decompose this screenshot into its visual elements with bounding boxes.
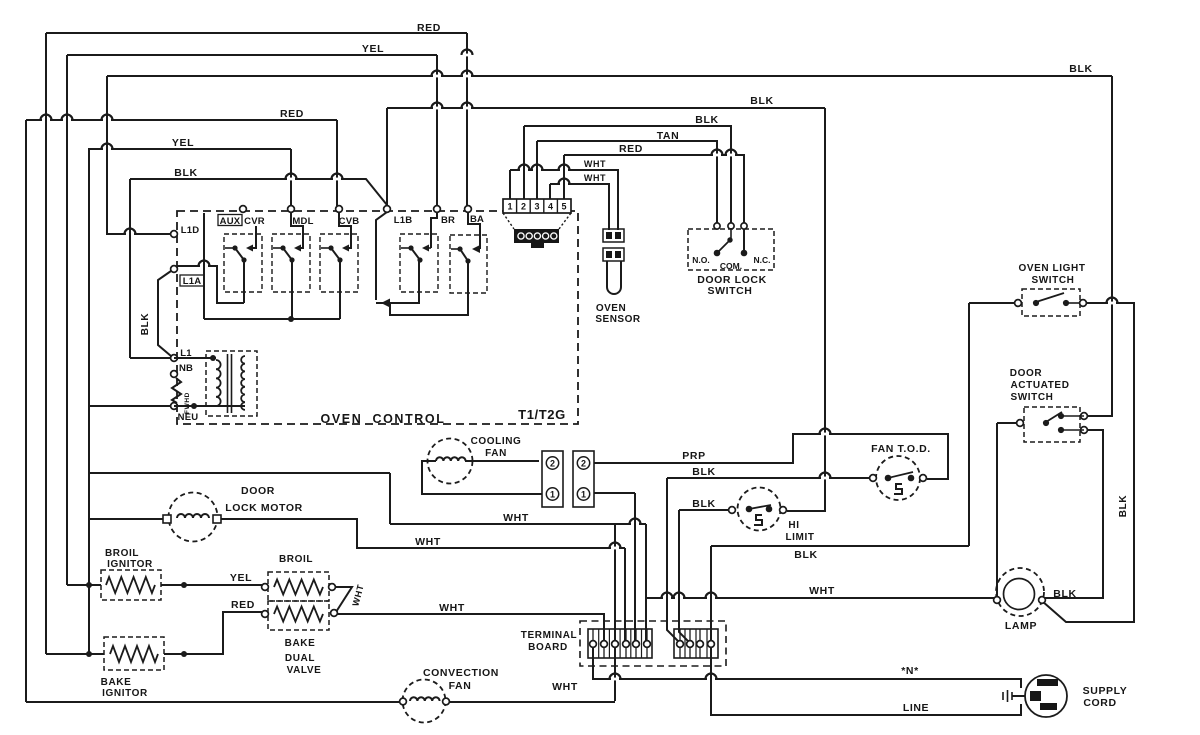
svg-text:BLK: BLK [1118, 495, 1129, 518]
svg-text:YEL: YEL [362, 43, 384, 55]
svg-text:COOLING: COOLING [471, 436, 522, 447]
bake valve [268, 601, 329, 630]
svg-text:FWHD: FWHD [184, 392, 191, 414]
svg-text:HI: HI [788, 520, 799, 531]
wire oven light switch right to BLK vertical [1042, 303, 1134, 622]
wire WHT long mid [390, 523, 646, 525]
svg-text:BROIL: BROIL [279, 554, 313, 565]
svg-text:2: 2 [581, 458, 586, 468]
relay L1B [400, 234, 438, 292]
wire vertical YEL mid to MDL [290, 149, 292, 206]
connector blocks 2/1 [542, 451, 563, 507]
connector strip pins 1-5 [503, 199, 571, 213]
wire RED top [46, 32, 467, 34]
wire BLK mid [130, 179, 387, 206]
svg-text:SWITCH: SWITCH [1010, 392, 1053, 403]
svg-text:RED: RED [619, 143, 643, 155]
svg-text:L1B: L1B [394, 215, 413, 226]
door lock switch [688, 229, 774, 270]
svg-text:WHT: WHT [503, 512, 529, 524]
svg-text:FAN: FAN [485, 448, 507, 459]
svg-text:SENSOR: SENSOR [595, 314, 641, 325]
svg-text:BR: BR [441, 215, 455, 226]
svg-text:TAN: TAN [657, 130, 680, 142]
relay BR/BA [450, 235, 487, 293]
relay AUX/CVR [224, 234, 262, 292]
wire x89 to cooling fan column [89, 472, 390, 474]
svg-text:LIMIT: LIMIT [785, 532, 814, 543]
wire WHT pin1 to sensor [510, 170, 618, 230]
wire TAN to door lock switch [537, 141, 717, 224]
svg-text:FAN: FAN [449, 680, 472, 692]
vertical x997 to lamp [996, 423, 998, 600]
relay MDL [272, 234, 310, 292]
wire oven light switch left [969, 302, 1015, 304]
bake ignitor [104, 637, 164, 670]
svg-text:WHT: WHT [584, 159, 606, 169]
vertical x679 to terminal board R2 [679, 510, 688, 644]
vertical x646 to terminal board l6 [645, 524, 647, 641]
vertical x711 to terminal board R4 [710, 546, 712, 644]
wire NEU feed [89, 405, 172, 407]
vertical x625 to terminal board L4 [624, 548, 626, 641]
svg-text:LINE: LINE [903, 702, 929, 714]
wire door lock motor out [220, 519, 625, 548]
svg-text:VALVE: VALVE [287, 665, 322, 676]
svg-text:*N*: *N* [901, 665, 919, 677]
svg-text:BAKE: BAKE [101, 677, 132, 688]
transformer T1 [206, 351, 257, 416]
svg-text:DOOR: DOOR [1010, 368, 1043, 379]
N bus [593, 647, 1021, 688]
svg-text:WHT: WHT [584, 173, 606, 183]
svg-text:OVEN LIGHT: OVEN LIGHT [1018, 263, 1085, 274]
lamp [996, 568, 1044, 616]
vertical x667 to terminal board R1 [667, 478, 678, 644]
hi limit switch [738, 488, 781, 531]
wire BLK vertical x130 [129, 179, 131, 358]
vertical x390 down [389, 473, 391, 524]
wire YEL mid [88, 148, 291, 150]
svg-text:RED: RED [280, 108, 304, 120]
svg-text:OVEN CONTROL: OVEN CONTROL [321, 412, 446, 426]
L1A wire into box [177, 266, 244, 303]
svg-text:CORD: CORD [1083, 697, 1116, 709]
svg-text:BLK: BLK [1069, 63, 1092, 75]
wire BLK fan tod [667, 477, 869, 479]
wire WHT to lamp [646, 597, 994, 599]
vertical x969 light to 546 [968, 303, 970, 546]
svg-text:DUAL: DUAL [285, 653, 315, 664]
door actuated switch left wire [997, 422, 1021, 424]
bottom wire [26, 701, 403, 703]
LINE wire [711, 644, 1021, 715]
svg-text:1: 1 [507, 202, 512, 212]
wire RED mid [26, 119, 337, 121]
svg-text:T1/T2G: T1/T2G [518, 407, 566, 422]
svg-text:1: 1 [550, 489, 555, 499]
svg-text:BLK: BLK [692, 498, 715, 510]
svg-text:BROIL: BROIL [105, 548, 139, 559]
svg-text:YEL: YEL [230, 572, 252, 584]
bake row [46, 653, 104, 655]
wire BLK top long [107, 75, 1112, 77]
svg-text:SUPPLY: SUPPLY [1083, 685, 1128, 697]
NEU wire to transformer [174, 405, 245, 407]
svg-text:BLK: BLK [695, 114, 718, 126]
left vertical x67 YEL down to broil [66, 55, 68, 585]
L1A to L1 path [158, 271, 171, 356]
valve jog WHT [334, 587, 352, 612]
svg-text:TERMINAL: TERMINAL [521, 630, 577, 641]
relay bus y319 [204, 318, 340, 320]
wire RED to door lock switch [564, 155, 744, 224]
wire L1B terminal feed [386, 108, 388, 206]
svg-text:BLK: BLK [794, 549, 817, 561]
svg-text:SWITCH: SWITCH [707, 285, 752, 297]
wire valve WHT [336, 614, 604, 641]
svg-text:BLK: BLK [1053, 588, 1076, 600]
wire vertical RED top to BA [466, 33, 468, 206]
svg-text:OVEN: OVEN [596, 303, 626, 314]
svg-text:ACTUATED: ACTUATED [1010, 380, 1069, 391]
wire vertical RED mid to CVB [336, 120, 338, 206]
broil row [67, 584, 101, 586]
svg-text:WHT: WHT [552, 681, 578, 693]
oven sensor [603, 229, 624, 242]
svg-text:2: 2 [521, 202, 526, 212]
svg-text:IGNITOR: IGNITOR [107, 559, 153, 570]
svg-text:WHT: WHT [415, 536, 441, 548]
svg-text:4: 4 [548, 202, 553, 212]
svg-text:YEL: YEL [172, 137, 194, 149]
svg-text:L1A: L1A [183, 276, 202, 287]
wire vertical YEL to BR [436, 55, 438, 206]
wire BLK right vertical to door actuated switch [1086, 76, 1112, 416]
wire YEL top [67, 54, 437, 56]
terminals on top edge [240, 206, 247, 213]
svg-text:AUX: AUX [220, 216, 241, 227]
NB fuse [172, 378, 181, 403]
svg-text:SWITCH: SWITCH [1031, 275, 1074, 286]
wire L1 feed [130, 357, 171, 359]
svg-text:LOCK MOTOR: LOCK MOTOR [225, 502, 303, 514]
svg-text:BLK: BLK [692, 466, 715, 478]
svg-text:LAMP: LAMP [1005, 620, 1037, 632]
wire BLK vertical x825 down to HI LIMIT [787, 108, 825, 511]
svg-text:RED: RED [417, 22, 441, 34]
wire x89 to door lock motor [89, 518, 166, 520]
vertical x615 conv fan / terml3 [614, 524, 616, 701]
svg-text:BOARD: BOARD [528, 642, 568, 653]
relay CVB [320, 234, 358, 292]
svg-text:CONVECTION: CONVECTION [423, 667, 499, 679]
svg-text:N.C.: N.C. [754, 255, 771, 265]
left vertical x26 down [25, 120, 27, 702]
pin verticals [509, 170, 511, 199]
svg-text:N.O.: N.O. [692, 255, 709, 265]
svg-text:COM.: COM. [720, 261, 742, 271]
wire WHT pin4 to sensor [550, 184, 609, 230]
door actuated lower right to lamp [1045, 430, 1103, 598]
svg-text:3: 3 [534, 202, 539, 212]
svg-text:5: 5 [561, 202, 566, 212]
svg-text:BLK: BLK [174, 167, 197, 179]
left vertical x89 neutral chain [88, 149, 90, 654]
wire PRP [594, 434, 948, 479]
oven control dashed box [177, 211, 578, 424]
left vertical x46 RED down to bake [45, 33, 47, 654]
wire BLK to door lock switch [524, 126, 731, 224]
svg-text:DOOR: DOOR [241, 485, 275, 497]
svg-text:IGNITOR: IGNITOR [102, 688, 148, 699]
supply cord [1025, 675, 1067, 717]
svg-text:2: 2 [550, 458, 555, 468]
svg-text:1: 1 [581, 489, 586, 499]
svg-text:NB: NB [179, 363, 193, 374]
wire BLK L1B to right [387, 107, 825, 109]
svg-text:FAN T.O.D.: FAN T.O.D. [871, 443, 931, 455]
svg-text:WHT: WHT [439, 602, 465, 614]
wire BLK hi limit [679, 509, 728, 511]
svg-text:L1D: L1D [181, 225, 200, 236]
svg-text:PRP: PRP [682, 450, 705, 462]
svg-text:WHT: WHT [809, 585, 835, 597]
svg-text:CVR: CVR [244, 216, 265, 227]
svg-text:BLK: BLK [750, 95, 773, 107]
svg-text:BLK: BLK [140, 313, 151, 336]
wire y546 light feed [711, 545, 969, 547]
svg-text:BAKE: BAKE [285, 638, 316, 649]
svg-text:RED: RED [231, 599, 255, 611]
wire BLK vertical x107 to L1D [107, 76, 171, 234]
